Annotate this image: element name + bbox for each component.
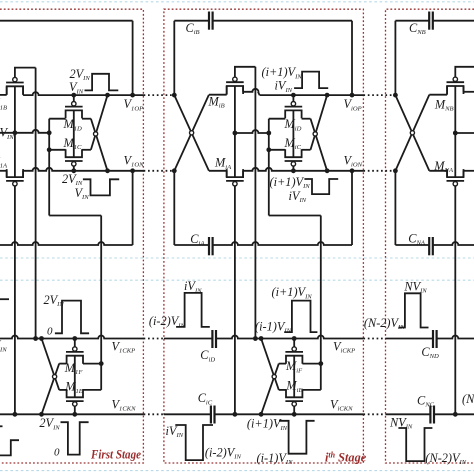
capacitor CiD [212, 330, 216, 348]
svg-text:0: 0 [47, 325, 53, 337]
junction dot VIN tap on bracket [47, 130, 52, 135]
wire MiA left lead [209, 171, 227, 177]
junction dot M1C gate on V1ON [71, 168, 76, 173]
label MiC [284, 136, 302, 151]
junction dot M1B-gate vert on V1CKP [33, 336, 38, 341]
waveform fragment left edge (tick) [0, 425, 3, 427]
junction dot diagonal on V1ON [105, 168, 110, 173]
junction dot bulk on VIN [13, 130, 18, 135]
label M1A (clipped) [0, 154, 8, 169]
label M1F [64, 361, 84, 376]
N-th stage dashed border box [386, 9, 474, 463]
junction dot MiB-gate vert on ViCKP [253, 336, 258, 341]
wire MiA gate to ViCKN (vertical) [234, 186, 236, 414]
label MiF [285, 359, 303, 374]
junction dot CiB vert on ViOP [350, 93, 355, 98]
node V1ON rail [23, 168, 144, 171]
wire ViON down-left vertical (stage i) [173, 171, 175, 245]
label 2VIN (stage1 lower) [62, 172, 83, 187]
label ViCKP [333, 339, 355, 354]
wire M1C left lead [49, 149, 65, 151]
crossover circle (stage i input X) [190, 131, 194, 135]
junction dot diagonal on ViCKP [259, 336, 264, 341]
wire diagonal V1OP to M1C [91, 95, 108, 150]
label (N-1)VIN fragment [462, 392, 474, 406]
capacitor CND [433, 330, 437, 348]
waveform (i+1)VIN/(i-1)VIN (ViCKN) [279, 421, 315, 454]
wire stage-N top rail to CNB [395, 20, 429, 22]
wire left bracket MiD-MiC [268, 119, 270, 150]
construction line (cyan) bottom [0, 470, 474, 472]
wire ViOP up-left vertical (stage i) [173, 21, 175, 95]
label V1ON [124, 153, 145, 168]
label 0 (V1CKP pulse) [47, 325, 53, 337]
node ViCKN rail (left of CiC) [164, 413, 211, 415]
label CNC [417, 393, 435, 408]
junction dot left vert on ViON [172, 168, 177, 173]
wire stage-i top rail to CiB [174, 20, 209, 22]
junction dot diagonal on V1CKP [39, 336, 44, 341]
junction dot MiD gate on ViOP [291, 93, 296, 98]
wire bulk tap to right edge [455, 132, 474, 134]
node VIN wire [0, 130, 49, 133]
label NVIN (gap CKN) [389, 415, 413, 430]
waveform 2VIN/0 (V1CKN) [61, 422, 89, 454]
wire stage1 lower rail [0, 171, 133, 245]
label 2VIN (stage1 top) [70, 67, 91, 82]
junction dot M1C lead on bracket [47, 147, 52, 152]
waveform (i+1)VIN/iVIN (stage i top) [294, 72, 328, 89]
transistor M1F [66, 347, 84, 364]
junction dot MiF right lead [318, 361, 323, 366]
waveform iVIN/(i-2)VIN (gap CKP) [176, 293, 210, 327]
wire M1D right lead [82, 118, 91, 120]
wire diagonal ViCKP to MiE [261, 339, 279, 390]
wire MiC gate to ViON [292, 166, 294, 171]
label iVIN (gap CKP) [184, 279, 202, 294]
transistor M1A [6, 169, 24, 186]
wire MiA right lead [242, 171, 244, 177]
crossover circle (stage N input X) [410, 131, 414, 135]
wire bracket down-link [49, 150, 101, 390]
transistor MiC [285, 149, 303, 166]
wire CNA to right edge [433, 242, 474, 245]
wire diagonal MiB to ViON [174, 95, 209, 171]
wire M1E left lead [59, 389, 66, 391]
transistor MiF [285, 347, 303, 364]
label CiD [200, 348, 215, 363]
wire MiD right lead [302, 118, 311, 120]
transistor MiD [285, 102, 303, 119]
junction dot M1F right lead [99, 361, 104, 366]
construction line (cyan) top [0, 1, 474, 3]
wire MiD/MiC bulk link [292, 110, 294, 157]
label (N-2)VIN (gap CKP) [364, 316, 405, 331]
wire M1D/M1C bulk link [73, 110, 75, 157]
transistor M1B [6, 77, 24, 94]
waveform 2VIN/0 (V1CKP) [55, 301, 89, 334]
wire diagonal MiF to ViCKN [261, 364, 279, 415]
label M1E [64, 380, 83, 395]
wire M1B source lead (left) [0, 86, 7, 95]
label CiA [190, 232, 205, 247]
wire VNON down-left vertical (stage N) [394, 171, 396, 245]
dotted continuation V1ON-ViON [144, 170, 173, 172]
transistor M1C [65, 149, 83, 166]
junction dot MNA-gate vert on VNCKN [453, 412, 458, 417]
waveform NVIN/(N-2)VIN (gap CKN) [398, 428, 432, 461]
label ViOP [344, 97, 362, 112]
transistor MNB [447, 77, 465, 94]
label (i+1)VIN (stage i top) [262, 65, 303, 80]
wire MiF/MiE bulk link [293, 356, 295, 398]
wire MiF left lead [279, 363, 286, 365]
wire M1F/M1E bulk link [74, 356, 76, 398]
waveform (i+1)VIN/iVIN (stage i lower) [304, 179, 338, 194]
node VNCKP rail [437, 336, 474, 339]
wire M1A drain lead (right) [22, 171, 24, 177]
wire M1A gate to V1CKN (vertical) [14, 186, 16, 414]
dotted continuation ViOP-VNOP [363, 94, 393, 96]
i-th stage dashed border box [164, 9, 364, 463]
junction dot diagonal on V1OP [105, 93, 110, 98]
wire MNA gate to VNCKN (vertical) [454, 186, 456, 414]
node V1OP rail [23, 92, 144, 95]
junction dot MiF gate on ViCKP [292, 336, 297, 341]
junction dot MiE gate on ViCKN [292, 412, 297, 417]
label M1D [63, 117, 83, 132]
transistor M1E [66, 389, 84, 406]
crossover circle (stage1 output X) [94, 132, 98, 136]
label iVIN (gap CKN) [166, 424, 184, 439]
waveform 2VIN/VIN (stage1 lower) [83, 179, 119, 195]
wire MiC right lead [302, 149, 311, 151]
wire M1B/M1A bulk line [14, 86, 16, 177]
label CiB [186, 21, 200, 36]
wire MiD gate to ViOP [292, 95, 294, 101]
wire M1B gate loop [15, 68, 36, 78]
wire MiB gate up-over [235, 67, 256, 77]
node ViOP rail [260, 94, 364, 96]
wire M1B gate to V1CKP (vertical) [35, 68, 37, 339]
dotted continuation V1CKP-ViCKP [144, 338, 166, 340]
junction dot lower vert on V1ON [130, 168, 135, 173]
waveform iVIN/(i-2)VIN (gap CKN) [175, 425, 213, 460]
dotted continuation ViON-VNON [363, 170, 393, 172]
transistor MiE [285, 389, 303, 406]
label i-th Stage [325, 450, 367, 464]
label ViON [344, 153, 363, 168]
junction dot diagonal on ViOP [325, 93, 330, 98]
wire diagonal M1D to V1ON [91, 119, 108, 171]
label CND [421, 345, 439, 360]
wire diagonal ViOP to MiC [311, 95, 328, 150]
wire M1C gate to V1ON [73, 166, 75, 171]
label MiD [284, 117, 302, 132]
label (i+1)VIN (ViCKP pulse) [272, 285, 313, 300]
wire diagonal MiD to ViON [311, 119, 328, 171]
junction dot left vert on VNOP [393, 93, 398, 98]
node V1CKP rail [0, 336, 144, 339]
wire VNOP up-left vertical (stage N) [394, 21, 396, 95]
wire MiD left lead [269, 118, 285, 120]
junction dot MiA-gate vert on ViCKN [233, 412, 238, 417]
junction dot diagonal on V1CKN [39, 412, 44, 417]
wire MiC left lead [269, 149, 285, 151]
capacitor CiB [209, 12, 213, 30]
label V1CKP [112, 339, 136, 354]
wire M1F left lead [59, 363, 66, 365]
junction dot bulk tap (stage i) [233, 131, 238, 136]
wire MiE gate to ViCKN [293, 406, 295, 414]
wire MiB right lead [243, 86, 260, 95]
label VIN (left edge) [0, 126, 14, 141]
label VIN (stage1 top) [69, 80, 84, 95]
wire M1E gate to V1CKN [74, 406, 76, 414]
transistor MiB [226, 77, 244, 94]
transistor MNA [447, 169, 465, 186]
capacitor CNB [429, 12, 433, 30]
node VNCKP rail (left of CND) [386, 338, 434, 340]
junction dot top wire on V1OP [130, 93, 135, 98]
capacitor CNC [430, 406, 434, 424]
wire CiB to right vertical [213, 21, 352, 95]
label (i-2)VIN (gap CKP) [149, 314, 186, 329]
label 2VIN (V1CKP pulse) [44, 293, 65, 308]
label V1CKN [112, 397, 137, 412]
node V1CKN rail [0, 413, 144, 415]
capacitor CNA [429, 237, 433, 255]
svg-text:0: 0 [54, 447, 60, 459]
junction dot diagonal on ViCKN [259, 412, 264, 417]
wire MNA left lead [429, 171, 447, 177]
waveform NVIN/(N-2)VIN (gap CKP) [398, 293, 428, 327]
label (i+1)VIN (stage i lower) [270, 175, 311, 190]
construction line (cyan) mid-upper [0, 257, 474, 259]
wire M1C right lead [82, 149, 91, 151]
label fragment left edge [0, 338, 7, 353]
svg-text:(N-: (N- [462, 392, 474, 406]
junction dot diagonal on ViON [325, 168, 330, 173]
junction dot left vert on ViOP [172, 93, 177, 98]
crossover circle (stage1 clock X) [53, 375, 57, 379]
transistor MiA [226, 169, 244, 186]
label NVIN (gap CKP) [403, 279, 427, 294]
wire MNB gate up-over [455, 67, 474, 77]
junction dot MiC lead on bracket [266, 147, 271, 152]
wire MiE right lead [302, 389, 320, 391]
label ViCKN [330, 397, 353, 412]
junction dot left vert on VNON [393, 168, 398, 173]
wire M1D gate to V1OP [73, 95, 75, 101]
wire MNA right lead [464, 171, 474, 177]
wire MNB/MNA bulk line [454, 86, 456, 177]
wire MiB gate to ViCKP (vertical) [254, 67, 256, 339]
wire stage1 top rail [0, 21, 133, 95]
label CNB [409, 21, 426, 36]
waveform (i+1)VIN/(i-1)VIN (ViCKP) [284, 301, 317, 333]
construction line (cyan) mid-lower [0, 279, 474, 281]
dotted continuation ViCKP-VNCKP [363, 338, 385, 340]
label MiE [285, 379, 302, 394]
capacitor CiC [211, 406, 215, 424]
label MiB [208, 94, 225, 109]
wire M1E right lead [83, 389, 101, 391]
label CiC [198, 391, 213, 406]
wire MNB right lead [464, 86, 474, 92]
wire M1F gate to V1CKP [74, 339, 76, 347]
node ViON rail [243, 168, 363, 171]
wire bulk tap to bracket [235, 130, 269, 133]
label iVIN (stage i top) [275, 79, 293, 94]
label VIN (stage1 lower) [75, 186, 90, 201]
wire M1A source lead (left) [0, 171, 7, 177]
label (N-2)VIN (gap CKN) [425, 451, 466, 466]
wire MiE left lead [279, 389, 286, 391]
waveform fragment left edge (step) [0, 440, 19, 455]
wire diagonal VNOP to MNA [395, 95, 429, 171]
wire left bracket M1D-M1C [48, 119, 50, 150]
crossover circle (stage i clock X) [272, 375, 276, 379]
wire MiB/MiA bulk line [234, 86, 236, 177]
wire CNB to right edge [433, 20, 474, 22]
node ViCKP rail (left of CiD) [164, 338, 213, 340]
wire stage-N lower rail to CNA [395, 244, 429, 246]
waveform fragment left edge (pulse top) [0, 298, 9, 300]
node ViCKN rail [215, 413, 364, 415]
node VNCKN rail (left of CNC) [386, 413, 431, 415]
waveform 2VIN/VIN (stage1 top) [85, 74, 119, 91]
junction dot M1A-gate vert on V1CKN [13, 412, 18, 417]
label V1OP [124, 97, 144, 112]
label MNB [434, 97, 454, 112]
wire MiB left lead [209, 86, 227, 95]
node VNCKN rail [434, 413, 474, 415]
label MiA [214, 156, 232, 171]
junction dot bulk wire on bracket [266, 131, 271, 136]
wire diagonal ViOP to MiA [174, 95, 209, 171]
label M1B (clipped) [0, 96, 7, 111]
transistor M1D [65, 102, 83, 119]
wire bracket down-link (stage i) [269, 150, 321, 390]
capacitor CiA [209, 237, 213, 255]
junction dot MiC gate on ViON [291, 168, 296, 173]
label MNA [433, 159, 454, 174]
label (i-1)VIN (ViCKP pulse) [255, 319, 292, 334]
wire M1D left lead [49, 118, 65, 120]
label 0 (V1CKN pulse) [54, 447, 60, 459]
dotted continuation V1CKN-ViCKN [144, 413, 166, 415]
wire stage-i lower rail to CiA [174, 244, 209, 246]
svg-text:First Stage: First Stage [90, 447, 141, 461]
junction dot CiA vert on ViON [350, 168, 355, 173]
dotted continuation ViCKN-VNCKN [363, 413, 385, 415]
wire MiF right lead [302, 363, 320, 365]
node ViCKP rail [216, 336, 363, 339]
label (i-1)VIN (ViCKN pulse) [257, 451, 294, 466]
label M1C [63, 136, 83, 151]
wire diagonal MNB to VNON [395, 95, 429, 171]
label First Stage [90, 447, 141, 461]
label (i-2)VIN (gap CKN) [205, 445, 242, 460]
junction dot M1F gate on V1CKP [72, 336, 77, 341]
crossover circle (stage i output X) [313, 132, 317, 136]
wire M1B drain lead joins V1OP rail [22, 86, 24, 95]
wire CiA to right vertical [213, 171, 352, 245]
label (i+1)VIN (ViCKN pulse) [247, 417, 288, 432]
junction dot M1D gate on V1OP [71, 93, 76, 98]
first stage dashed border box [0, 9, 143, 463]
label iVIN (stage i lower) [289, 189, 307, 204]
wire MNB left lead [429, 86, 447, 95]
wire diagonal V1CKP to M1E [42, 339, 60, 390]
wire diagonal M1F to V1CKN [42, 364, 60, 415]
junction dot M1E gate on V1CKN [72, 412, 77, 417]
label CNA [408, 231, 426, 246]
wire MiF gate to ViCKP [293, 339, 295, 347]
junction dot bulk tap (stage N) [453, 131, 458, 136]
wire M1F right lead [83, 363, 101, 365]
label 2VIN (V1CKN pulse) [39, 416, 60, 431]
dotted continuation V1OP-ViOP [144, 94, 173, 96]
